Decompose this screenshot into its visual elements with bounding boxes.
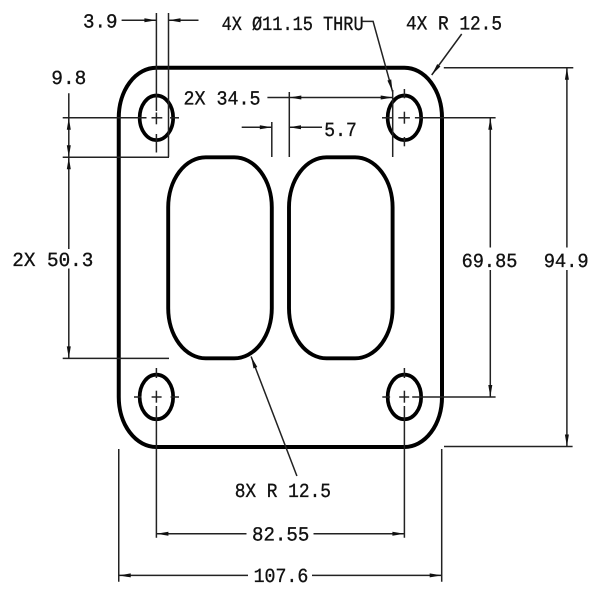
leader of 4X Ø11.15 THRU — [362, 21, 393, 91]
leader arrow of 4X R 12.5 — [432, 64, 441, 75]
svg-text:9.8: 9.8 — [51, 68, 86, 91]
dimension 69.85 arrows — [488, 118, 492, 397]
dimension 9.8 arrows — [67, 118, 71, 158]
flange plate outline — [119, 68, 442, 447]
dimension 3.9 lines — [122, 13, 199, 157]
centerlines of top-right hole — [382, 89, 496, 146]
dimension 2X 50.3 arrows — [67, 157, 71, 358]
leader of 8X R 12.5 — [251, 357, 297, 477]
leader arrow of 4X Ø11.15 THRU — [387, 79, 392, 91]
dimension 94.9 arrows — [565, 68, 569, 447]
centerlines of top-left hole — [63, 13, 179, 153]
centerlines of bottom-right hole — [382, 368, 495, 538]
left exhaust port — [168, 157, 272, 358]
centerlines of bottom-left hole — [134, 368, 179, 538]
svg-text:4X Ø11.15 THRU: 4X Ø11.15 THRU — [222, 14, 364, 37]
bolt hole top-right — [388, 96, 422, 141]
dimension 9.8 text — [51, 68, 86, 91]
note 4X R 12.5 text — [406, 14, 502, 37]
note 8X R 12.5 text — [235, 481, 331, 504]
bolt hole bottom-right — [388, 375, 422, 420]
leader arrow of 8X R 12.5 — [251, 357, 257, 369]
note 4X Ø11.15 THRU text — [222, 14, 364, 37]
dimension 5.7 lines — [242, 122, 322, 157]
dimension 2X 34.5 arrows — [289, 96, 392, 100]
dimension 107.6 arrows — [119, 573, 442, 577]
dimension 5.7 text — [324, 120, 357, 143]
svg-text:2X 50.3: 2X 50.3 — [12, 250, 93, 273]
dimension 82.55 arrows — [156, 532, 404, 536]
svg-text:5.7: 5.7 — [324, 120, 357, 143]
dimension 3.9 arrows — [144, 18, 180, 22]
dimension 94.9 text — [544, 251, 589, 274]
svg-text:3.9: 3.9 — [83, 12, 118, 35]
svg-text:8X R 12.5: 8X R 12.5 — [235, 481, 331, 504]
dimension 82.55 lines — [156, 533, 404, 535]
leader of 4X R 12.5 — [432, 34, 462, 75]
bolt hole bottom-left — [140, 375, 174, 420]
dimension 69.85 lines — [489, 118, 491, 397]
dimension 2X 34.5 text — [184, 88, 261, 111]
dimension 2X 50.3 text — [12, 250, 93, 273]
dimension 9.8 / 2X 50.3 dim line — [63, 93, 169, 358]
dimension 107.6 text — [254, 566, 309, 589]
dimension 94.9 lines — [444, 68, 574, 447]
bolt hole top-left — [140, 96, 174, 141]
svg-text:4X R 12.5: 4X R 12.5 — [406, 14, 502, 37]
svg-text:2X 34.5: 2X 34.5 — [184, 88, 261, 111]
dimension 5.7 arrows — [260, 125, 301, 129]
svg-text:82.55: 82.55 — [252, 525, 309, 548]
dimension 2X 34.5 lines — [267, 90, 392, 157]
svg-text:107.6: 107.6 — [254, 566, 309, 589]
dimension 69.85 text — [462, 251, 518, 274]
dimension 82.55 text — [252, 525, 309, 548]
dimension 3.9 text — [83, 12, 118, 35]
dimension 107.6 lines — [119, 449, 442, 582]
right exhaust port — [289, 157, 393, 358]
svg-text:69.85: 69.85 — [462, 251, 518, 274]
